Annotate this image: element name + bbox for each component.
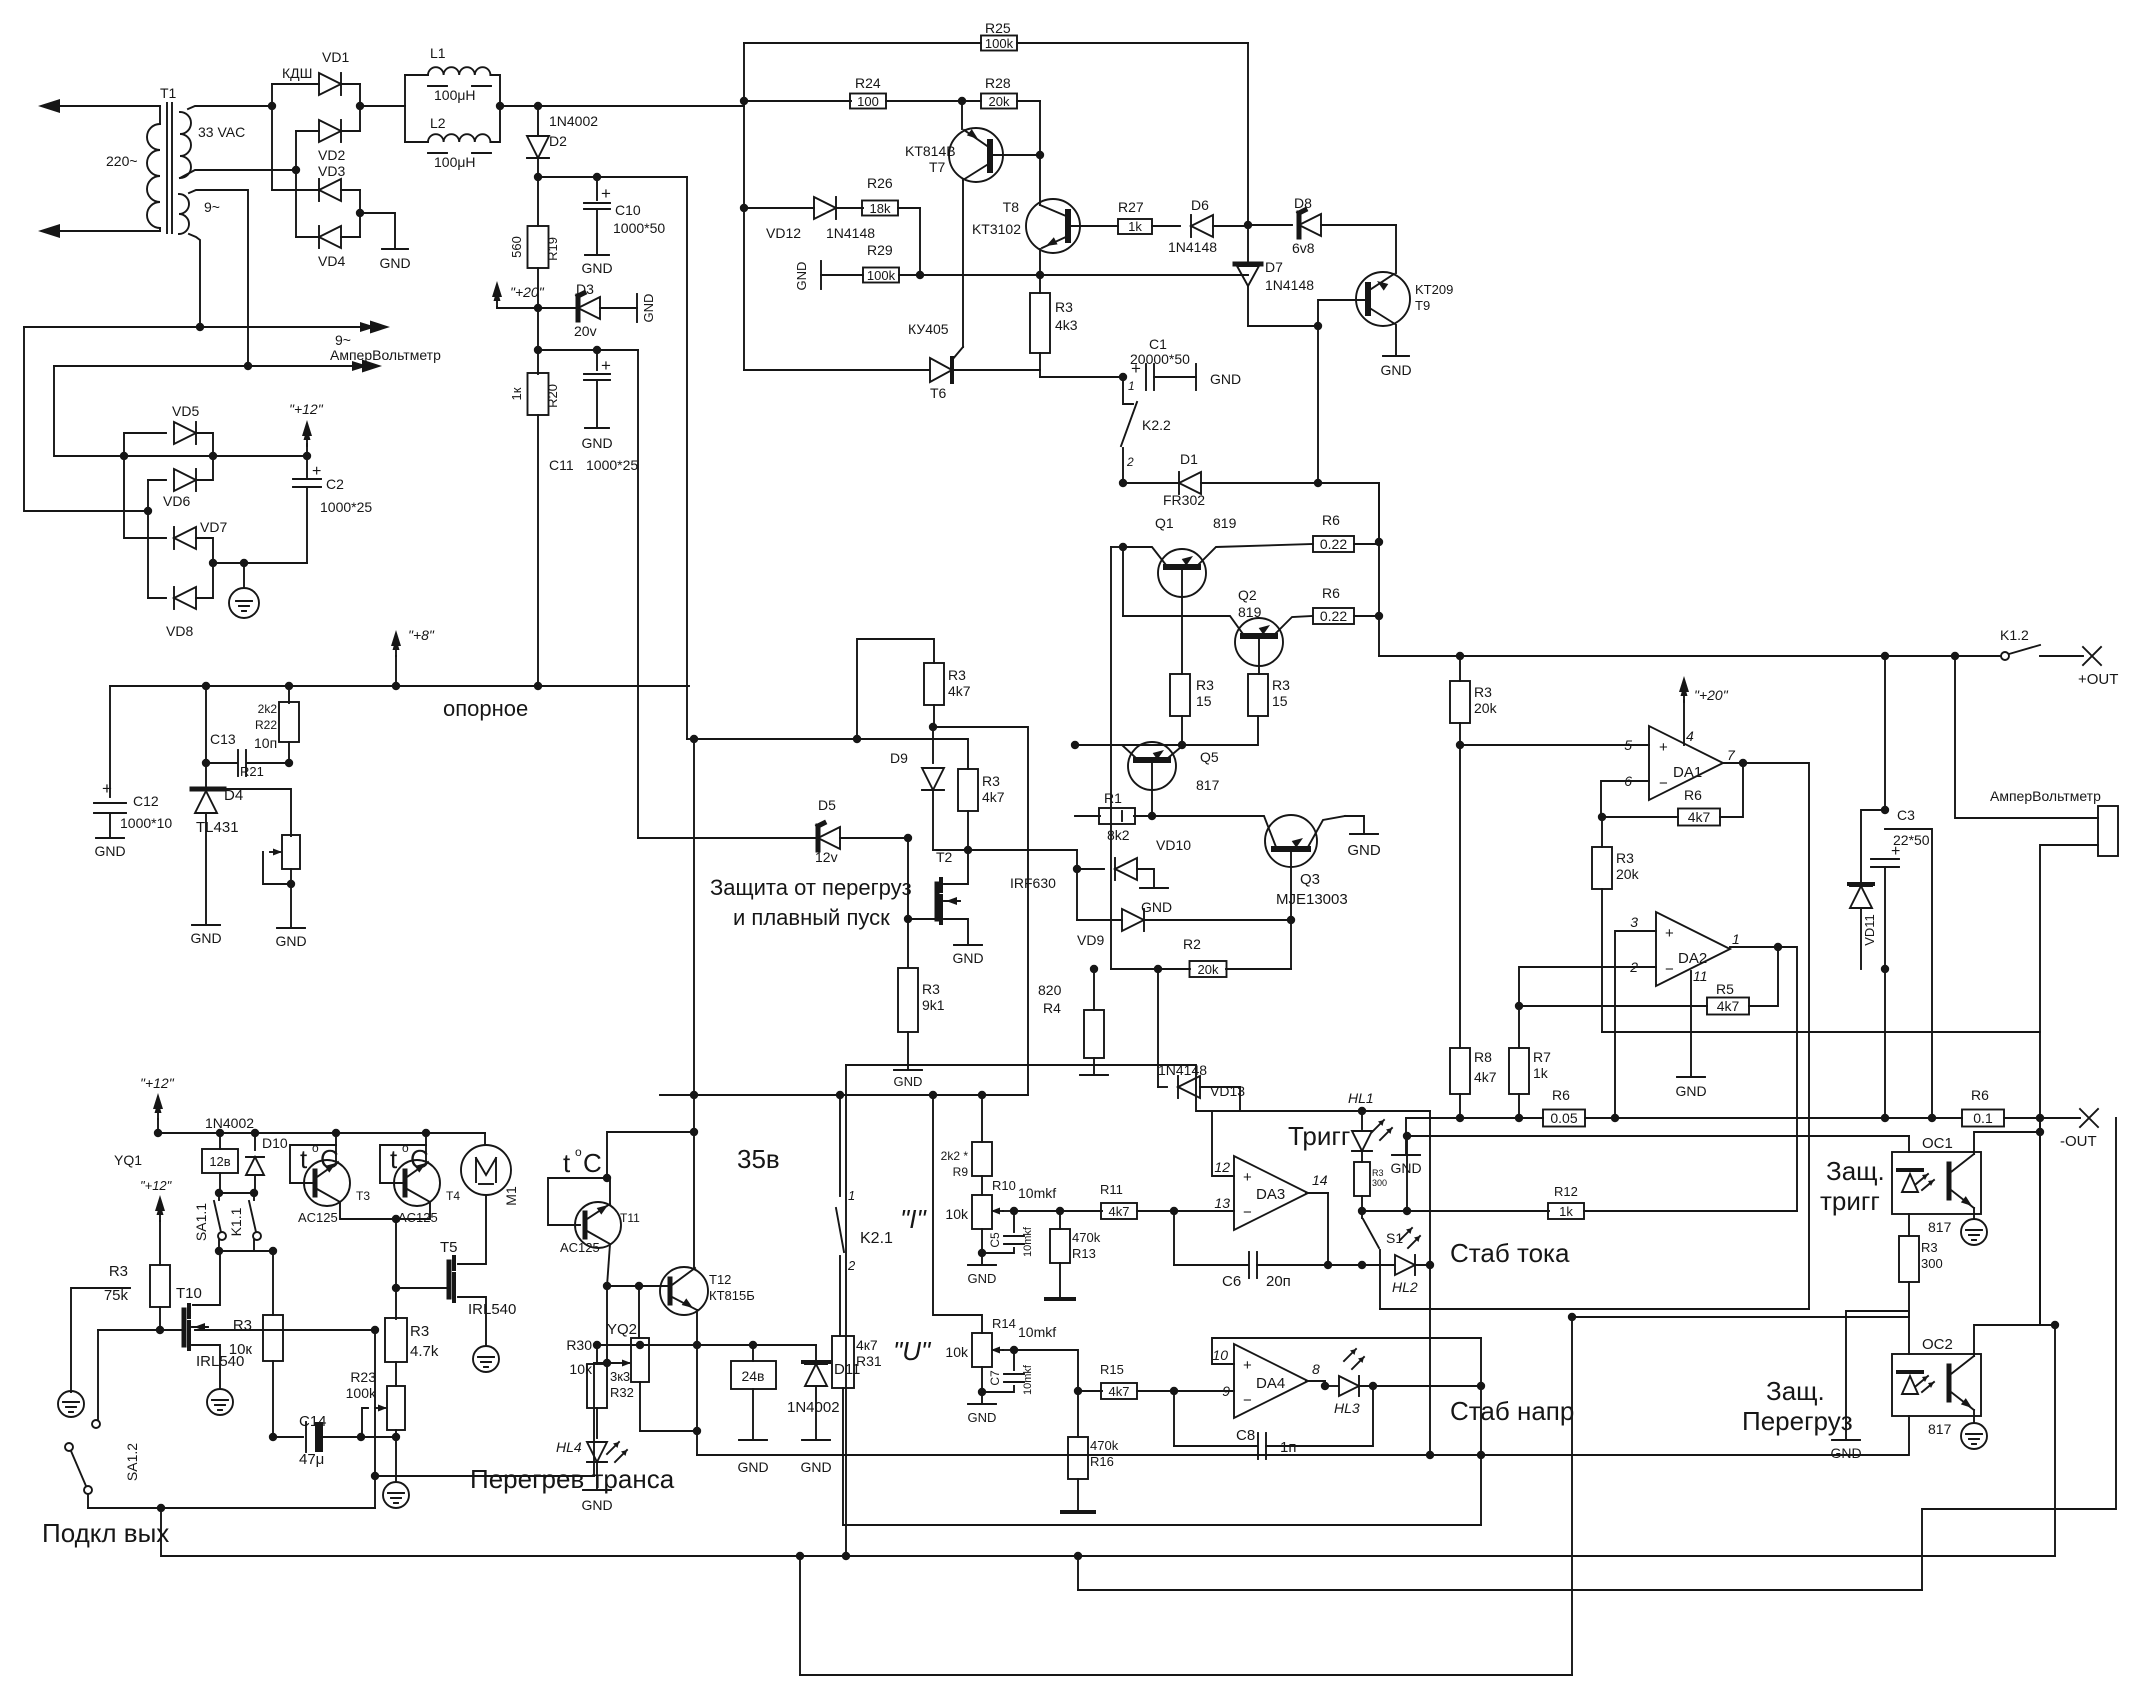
node R21 bottom [287,880,295,888]
svg-text:t: t [563,1148,571,1178]
wire Q1 base [1181,570,1183,674]
wire 35v row [660,1094,1028,1096]
svg-text:1000*25: 1000*25 [320,499,372,515]
diode VD9 [1076,869,1078,920]
node YQ2 row T12 [693,1341,701,1349]
svg-text:817: 817 [1196,777,1220,793]
svg-text:+: + [312,463,321,480]
svg-text:15: 15 [1196,693,1212,709]
svg-text:R3: R3 [410,1323,429,1340]
svg-text:R6: R6 [1971,1087,1989,1103]
svg-text:10к: 10к [229,1341,253,1358]
node DA2 out [1774,943,1782,951]
svg-text:YQ1: YQ1 [114,1152,142,1168]
wire T8 emitter [1039,249,1041,275]
resistor R3 9k1 [907,919,909,967]
wire T9 base [1318,300,1365,326]
svg-text:R3: R3 [1474,684,1492,700]
wire Q2 base [1258,639,1260,674]
svg-text:24в: 24в [741,1368,764,1384]
svg-text:R13: R13 [1072,1246,1096,1261]
svg-text:"U": "U" [893,1336,932,1366]
svg-text:C: C [583,1148,602,1178]
ground R21 [277,927,305,929]
wire base row to Q5 [1075,744,1182,746]
wire VD2 junction vertical [295,131,297,170]
svg-text:DA4: DA4 [1256,1375,1285,1392]
motor M1 [484,1133,486,1145]
ground shunt row [1405,1118,1407,1155]
wire R8 col [1459,745,1461,1048]
svg-text:1: 1 [848,1188,855,1203]
node T2 drain [964,846,972,854]
wire T10 drain [193,1251,220,1305]
wire opornoe bus [110,685,689,687]
node VD2 bottom junction [292,166,300,174]
svg-text:T7: T7 [929,159,946,175]
diode VD11 [1861,810,1885,884]
svg-text:R11: R11 [1100,1182,1123,1197]
svg-text:-OUT: -OUT [2060,1133,2097,1150]
wire T10 gate row [98,1329,184,1331]
wire D8 to T9 emitter [1395,225,1397,273]
svg-text:VD10: VD10 [1156,837,1191,853]
ground T2 [954,944,982,946]
diode VD1 [319,73,341,95]
node R6 q1 right [1375,538,1383,546]
svg-text:35в: 35в [737,1144,780,1174]
svg-text:GND: GND [737,1459,768,1475]
earth bridge2 [243,563,245,588]
wire podkl bus [161,1508,2055,1556]
node VD7 bottom [209,559,217,567]
svg-text:20k: 20k [1616,866,1640,882]
ground bridge [360,213,395,249]
node 35v x694 [690,1091,698,1099]
svg-text:C5: C5 [988,1232,1002,1248]
node 9~ wire2 [244,362,252,370]
relay contact K2.1 [839,1095,841,1196]
svg-text:R5: R5 [1716,981,1734,997]
svg-text:R3: R3 [922,981,940,997]
wire VD13 to HL1 rail [1239,1087,1241,1111]
resistor R3 15 (Q2) [1248,674,1268,716]
node 846 bus [842,1552,850,1560]
wire SA1.2 riser [97,1330,99,1419]
svg-text:T5: T5 [440,1239,458,1256]
svg-text:R26: R26 [867,175,893,191]
svg-text:R10: R10 [992,1178,1016,1193]
capacitor C2 1000*25 [306,456,308,477]
node R22 c13 col [202,682,210,690]
svg-text:819: 819 [1213,515,1237,531]
wire SA1.2 out row [88,1507,375,1509]
svg-text:R31: R31 [856,1353,882,1369]
svg-text:75k: 75k [104,1287,129,1304]
wire R30 wiper to bus1476 [593,1363,595,1476]
svg-text:0.1: 0.1 [1973,1110,1993,1126]
wire T2 drain lead [944,850,968,884]
svg-text:C6: C6 [1222,1273,1241,1290]
wire OC1 feed row [1407,1135,1909,1137]
svg-text:12v: 12v [815,849,838,865]
wire 9v input row 1 [54,366,124,456]
supply arrow +20 DA1 [1683,684,1685,702]
svg-text:R3: R3 [233,1317,252,1334]
svg-text:100k: 100k [985,36,1014,51]
svg-text:КТ815Б: КТ815Б [709,1288,755,1303]
svg-text:VD11: VD11 [1862,914,1877,946]
wire R19 to D3 node [537,268,539,308]
svg-text:IRL540: IRL540 [468,1301,516,1318]
svg-text:R30: R30 [566,1337,592,1353]
svg-text:и плавный пуск: и плавный пуск [733,905,890,930]
svg-text:D2: D2 [549,133,567,149]
node HL3 busA [1477,1451,1485,1459]
svg-text:GND: GND [1347,842,1381,859]
svg-text:YQ2: YQ2 [607,1321,637,1338]
svg-text:2: 2 [1126,455,1134,469]
node S1 top [1358,1207,1366,1215]
diode VD12 1N4148 [740,204,748,212]
diode D9 [932,727,934,763]
node R10 wiper [1010,1207,1018,1215]
svg-text:−: − [1659,775,1668,792]
wire OC1 collector [1974,1132,2040,1154]
node 35v R9 [978,1091,986,1099]
svg-text:о: о [575,1145,582,1159]
node D6 right [1244,221,1252,229]
node R2 left [1154,965,1162,973]
node R5 left [1515,1002,1523,1010]
diode VD6 [148,479,166,481]
svg-text:C7: C7 [988,1370,1002,1386]
diode D7 1N4148 [1247,225,1249,262]
svg-text:АмперВольтметр: АмперВольтметр [1990,788,2101,804]
svg-text:5: 5 [1624,737,1632,753]
svg-text:R8: R8 [1474,1049,1492,1065]
svg-text:C3: C3 [1897,807,1915,823]
svg-text:Стаб тока: Стаб тока [1450,1238,1570,1268]
svg-text:GND: GND [581,260,612,276]
svg-text:"+12": "+12" [289,401,324,417]
wire DA2 plus input [1615,931,1656,1118]
svg-text:Q5: Q5 [1200,749,1219,765]
node D1 right [1314,479,1322,487]
wire D3 to R20 [537,308,539,374]
transistor T4 AC125 [394,1160,440,1206]
arrow 9~ out 2 [362,360,382,373]
diode D10 [251,1129,259,1137]
wire R30 to emitter [640,1430,697,1432]
wire av to +out [1955,656,2098,818]
wire T11 col to R30 wiper [606,1286,608,1363]
svg-text:+OUT: +OUT [2078,671,2118,688]
capacitor C5 [1013,1211,1015,1232]
diode VD2 [319,120,341,142]
wire 9~ output row 1 [24,326,372,328]
node R6 fb left [1598,813,1606,821]
node R32 top [636,1341,644,1349]
transformer T1 secondary 33VAC winding [180,112,191,178]
transformer T1 core [166,103,168,233]
bus 1590 [1078,1589,1922,1591]
node DA1 out [1739,759,1747,767]
svg-text:Тригг: Тригг [1288,1121,1350,1151]
svg-text:AC125: AC125 [560,1240,600,1255]
resistor R15 4k7 [1078,1390,1102,1392]
svg-text:+: + [1243,1169,1252,1186]
node T11 top [603,1174,611,1182]
35v frame [846,1065,1212,1111]
node R29 [916,271,924,279]
svg-text:GND: GND [800,1459,831,1475]
wire T7 collector down to T6 gate [962,181,964,347]
transistor T11 AC125 [575,1202,621,1248]
svg-text:GND: GND [894,1074,923,1089]
ground YQ2 [739,1439,767,1441]
svg-text:GND: GND [968,1271,997,1286]
svg-text:t: t [390,1144,398,1174]
wire OC2 collector [1974,1325,2055,1356]
wire r3#2 top [933,739,968,769]
wire Q5 row continue [857,738,933,740]
node VD6 bus [144,507,152,515]
resistor R3 4k7 (first) [924,663,944,705]
node C13 left [202,759,210,767]
node T3T4 join [392,1215,400,1223]
svg-text:GND: GND [1675,1083,1706,1099]
wire left bus of driver block [743,43,745,370]
svg-text:10mkf: 10mkf [1018,1185,1056,1201]
wire VD3-VD4 left bus [295,170,297,237]
svg-text:OC1: OC1 [1922,1135,1953,1152]
wire R12 col up [1406,1136,1408,1211]
capacitor C3 22*50 [1884,656,1886,810]
ground R10 [968,1264,996,1266]
svg-text:KT3102: KT3102 [972,221,1021,237]
ground OC1 emitter [1973,1208,1975,1218]
svg-text:GND: GND [190,930,221,946]
wire Q3 base down [1290,852,1292,920]
bridge right bus bottom [359,190,361,237]
wire K-bus down to Q2 row [1122,547,1124,616]
transistor T7 KT814B [949,128,1003,182]
resistor R13 470k [1059,1211,1061,1229]
svg-text:KT814B: KT814B [905,143,956,159]
svg-text:300: 300 [1921,1256,1943,1271]
svg-text:4k7: 4k7 [982,789,1005,805]
node bridge output [356,102,364,110]
wire secondary bottom to VD2 junction [180,170,296,178]
bridge left bus [271,84,273,190]
svg-text:HL1: HL1 [1348,1090,1374,1106]
svg-text:Q3: Q3 [1300,871,1320,888]
resistor R3 4.7k [385,1318,407,1362]
svg-text:Q1: Q1 [1155,515,1174,531]
svg-text:t: t [300,1144,308,1174]
wire YQ2 row [697,1344,816,1346]
svg-text:Защ.: Защ. [1766,1376,1825,1406]
node R13 top [1056,1207,1064,1215]
ground HL4 [583,1489,611,1491]
wire av down right [2039,1118,2041,1325]
svg-text:VD5: VD5 [172,403,199,419]
svg-text:+: + [102,779,112,798]
resistor R3 4k7 (second) [958,769,978,811]
node R30 top [635,1282,643,1290]
node bridge left top [268,102,276,110]
svg-text:13: 13 [1214,1195,1230,1211]
node HL3 out [1477,1382,1485,1390]
capacitor C10 [596,177,598,200]
node earth bridge2 [240,559,248,567]
wire HL2 col [1429,1111,1431,1455]
svg-text:о: о [402,1141,409,1155]
svg-text:Защ.: Защ. [1826,1156,1885,1186]
svg-text:0.22: 0.22 [1320,536,1347,552]
svg-text:C2: C2 [326,476,344,492]
wire OC2 led bottom [1908,1416,1910,1455]
svg-text:"+12": "+12" [140,1178,173,1193]
svg-text:R19: R19 [545,237,560,261]
wire 1590 right riser [1922,1118,2116,1590]
svg-text:R3: R3 [1372,1168,1384,1178]
ground C12 [96,837,124,839]
ground VD10 [1140,887,1168,889]
node VD5 bus [120,452,128,460]
svg-text:1: 1 [1128,379,1135,393]
node D1 left [1119,479,1127,487]
svg-text:1N4002: 1N4002 [205,1115,254,1131]
wire R28 to T8 collector [1039,101,1041,155]
resistor R22 2k2 [285,682,293,690]
node 1078 bus [1074,1552,1082,1560]
svg-text:FR302: FR302 [1163,492,1205,508]
svg-text:20k: 20k [1474,700,1498,716]
node T11 collector row [603,1282,611,1290]
svg-text:AC125: AC125 [298,1210,338,1225]
svg-text:817: 817 [1928,1421,1952,1437]
svg-text:GND: GND [275,933,306,949]
resistor R20 1k [528,373,549,415]
svg-text:HL2: HL2 [1392,1279,1418,1295]
wire T12 base row [607,1285,667,1287]
svg-text:TL431: TL431 [196,819,239,836]
svg-text:100μH: 100μH [434,87,476,103]
svg-text:K2.2: K2.2 [1142,417,1171,433]
svg-text:9~: 9~ [335,332,351,348]
svg-text:R3: R3 [109,1263,128,1280]
node T7 emitter [1036,151,1044,159]
wire Q3 base to R2 [1226,968,1291,970]
wire DA4 out [1306,1380,1325,1382]
wire T5 source [458,1297,486,1345]
op-amp DA1 [1649,726,1723,800]
wire D1 to R6 bus corner [1318,483,1379,542]
svg-text:9k1: 9k1 [922,997,945,1013]
svg-text:+: + [1243,1357,1252,1374]
svg-text:T10: T10 [176,1285,202,1302]
svg-text:VD2: VD2 [318,147,345,163]
input terminal arrow top [38,99,60,113]
svg-text:VD3: VD3 [318,163,345,179]
svg-text:C11: C11 [549,457,574,473]
node bridge gnd [356,209,364,217]
svg-text:GND: GND [1141,899,1172,915]
node -out av [2036,1114,2044,1122]
svg-text:+: + [1665,925,1674,942]
svg-text:GND: GND [641,294,656,323]
svg-text:817: 817 [1928,1219,1952,1235]
node R7 shunt [1515,1114,1523,1122]
svg-text:T1: T1 [160,85,177,101]
-OUT terminal [2080,1109,2098,1127]
resistor R3 20k (DA1) [1450,681,1470,723]
svg-text:R20: R20 [545,384,560,408]
ground D11 [802,1439,830,1441]
svg-text:+: + [1131,359,1141,378]
supply arrow +20 left [496,289,498,307]
svg-text:10п: 10п [254,735,277,751]
svg-text:R3: R3 [982,773,1000,789]
node R12 col [1403,1207,1411,1215]
node HL2 out [1426,1261,1434,1269]
wire riser x375 [374,1330,376,1508]
svg-text:R16: R16 [1090,1454,1114,1469]
ground C10 [585,254,609,256]
svg-text:R22: R22 [255,718,277,732]
earth SA1.2 [58,1391,84,1417]
bus 1525 [843,1524,1481,1526]
node C6 right [1324,1261,1332,1269]
node T5 gate [392,1284,400,1292]
resistor R1 8k2 [1075,815,1100,817]
wire T11 collector [607,1244,610,1286]
svg-text:820: 820 [1038,982,1062,998]
svg-text:4k7: 4k7 [1688,809,1711,825]
svg-text:GND: GND [1210,371,1241,387]
node oc1 route [1568,1313,1576,1321]
svg-text:R2: R2 [1183,936,1201,952]
node opornoe R20 [534,682,542,690]
wire OC1 led bottom [1908,1214,1910,1236]
wire Q5 row to protection block [694,738,857,740]
svg-text:C1: C1 [1149,336,1167,352]
node VD9 Q3 [1287,916,1295,924]
svg-text:T2: T2 [936,849,953,865]
svg-text:12: 12 [1214,1159,1230,1175]
diode VD3 [319,179,341,201]
svg-text:KT209: KT209 [1415,282,1453,297]
wire R14 wiper to R15 [1014,1350,1078,1391]
node vd11 bottom [1881,965,1889,973]
svg-text:R25: R25 [985,20,1011,36]
node D3 [534,304,542,312]
wire T11 emitter up [609,1178,611,1204]
svg-text:АмперВольтметр: АмперВольтметр [330,347,441,363]
svg-text:C10: C10 [615,202,641,218]
node T8 emitter row [1036,271,1044,279]
wire DA4 plus loop [1212,1338,1481,1364]
node 35v K2.1 [836,1091,844,1099]
svg-text:R6: R6 [1322,512,1340,528]
wire T12 collector 35v [693,1095,695,1267]
svg-text:GND: GND [952,950,983,966]
svg-text:1k: 1k [1559,1204,1573,1219]
node switch bottom left [215,1247,223,1255]
ground T9 [1395,325,1397,356]
